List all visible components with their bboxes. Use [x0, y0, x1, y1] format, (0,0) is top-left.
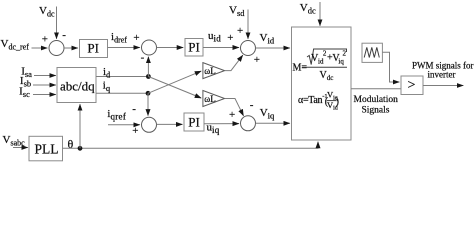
node junction on id wire — [146, 74, 151, 79]
summing junction S1 — [49, 41, 64, 56]
wire S2 to PI2 — [157, 47, 184, 49]
wire PI3 to S5, label uiq — [204, 109, 239, 135]
abc/dq transform block U1 — [57, 68, 96, 103]
node Isa label — [21, 65, 32, 79]
wire S4 to PI3 — [157, 123, 183, 125]
svg-text:+: + — [227, 32, 233, 44]
wire id feedback up into S2 — [147, 57, 149, 77]
PI controller box PI3 — [184, 113, 204, 131]
PI controller box PI2 — [185, 39, 203, 57]
PI controller box PI1 — [80, 40, 108, 58]
svg-text:+: + — [42, 33, 48, 45]
wire Vdc_ref into S1 — [32, 33, 48, 48]
wire Vdc down into M-block — [319, 2, 321, 26]
svg-text:+: + — [229, 109, 235, 121]
node Vdc_ref label — [1, 38, 30, 52]
wire id diagonal to gain wL2 — [148, 77, 201, 99]
svg-text:PI: PI — [188, 40, 200, 55]
wire Vsd down into S3 — [237, 10, 248, 39]
svg-text:+: + — [132, 125, 138, 137]
value label alpha equation — [298, 90, 339, 112]
svg-text:Modulation: Modulation — [354, 95, 399, 105]
node Isb label — [20, 75, 31, 89]
wire PI1 to S2, label idref — [108, 31, 140, 48]
wire Isc into abc/dq — [33, 94, 56, 96]
node Vdc label (top-right) — [300, 2, 316, 16]
wire iq feedback down into S4 — [147, 93, 149, 115]
svg-text:iqref: iqref — [107, 108, 126, 122]
svg-text:θ: θ — [68, 137, 74, 151]
svg-text:-: - — [141, 52, 145, 64]
node label Modulation Signals — [354, 95, 399, 115]
svg-text:α=Tan: α=Tan — [298, 95, 323, 106]
svg-text:Vid: Vid — [260, 32, 275, 46]
wire iq from abc/dq, label iq — [96, 80, 148, 94]
svg-text:id: id — [103, 66, 110, 80]
gain block wL2 — [203, 91, 225, 107]
comparator U5 — [401, 76, 423, 95]
modulation calculator block U2 — [292, 27, 352, 140]
wire modulation signals to comparator — [351, 88, 401, 90]
svg-text:idref: idref — [111, 31, 127, 45]
svg-text:id: id — [318, 58, 324, 66]
node Vsd label — [229, 5, 245, 19]
svg-text:-: - — [250, 99, 254, 111]
node Isc label — [19, 86, 30, 100]
wire S3 to M-block, label Vid — [256, 32, 290, 48]
gain block wL1 — [203, 63, 225, 79]
svg-text:Vdc: Vdc — [39, 5, 55, 19]
node iqref label — [107, 108, 126, 122]
svg-text:Vdc: Vdc — [300, 2, 316, 16]
wire theta up into abc/dq — [79, 104, 81, 148]
svg-text:+: + — [133, 32, 139, 44]
svg-text:PI: PI — [87, 40, 99, 55]
svg-text:ωL: ωL — [204, 66, 215, 76]
wire id from abc/dq, label id — [96, 66, 148, 80]
wire PWM output — [423, 85, 463, 87]
svg-text:M=: M= — [293, 62, 308, 73]
wire iqref into S4 — [108, 125, 140, 137]
svg-text:>: > — [408, 78, 416, 93]
node junction on theta wire — [78, 146, 83, 151]
svg-text:-: - — [62, 29, 66, 41]
value label M equation — [293, 49, 348, 82]
svg-text:): ) — [336, 96, 339, 107]
node label PWM signals for inverter — [412, 60, 474, 79]
svg-text:PLL: PLL — [34, 141, 58, 156]
wire Isb into abc/dq — [33, 84, 56, 86]
svg-text:iq: iq — [338, 58, 344, 66]
wire Isa into abc/dq — [34, 75, 56, 77]
summing junction S3 — [241, 41, 261, 66]
svg-text:inverter: inverter — [428, 69, 456, 79]
wire wL1 to S3 — [225, 55, 243, 70]
node Vdc label (top-left) — [39, 5, 55, 19]
svg-text:PI: PI — [188, 114, 200, 129]
node Vsabc label — [3, 134, 26, 148]
carrier wave generator box U4 — [362, 43, 382, 62]
node theta label — [68, 137, 74, 151]
wire Vsabc into PLL — [13, 147, 28, 149]
svg-text:+: + — [237, 25, 243, 37]
PLL block U3 — [29, 136, 63, 161]
wire iq diagonal to gain wL1 — [148, 71, 201, 93]
svg-text:+: + — [254, 54, 260, 66]
svg-text:Viq: Viq — [260, 107, 275, 121]
wire wL2 to S5 — [225, 99, 244, 116]
wire S1 to PI1 — [64, 47, 78, 49]
svg-text:Vsabc: Vsabc — [3, 134, 26, 148]
wire PI2 to S3, label uid — [203, 30, 239, 48]
wire theta from PLL to M-block bottom — [63, 142, 319, 149]
svg-text:Vdc_ref: Vdc_ref — [1, 38, 30, 52]
svg-text:Vsd: Vsd — [229, 5, 245, 19]
svg-text:2: 2 — [343, 50, 347, 58]
svg-text:abc/dq: abc/dq — [60, 78, 95, 93]
svg-text:uid: uid — [208, 30, 221, 44]
wire S5 to M-block, label Viq — [256, 107, 290, 123]
wire Vdc down into summing junction S1 — [57, 7, 67, 41]
svg-text:-: - — [132, 103, 136, 115]
svg-text:Signals: Signals — [362, 105, 390, 115]
node junction on iq wire — [146, 91, 151, 96]
summing junction S5 — [241, 99, 256, 131]
summing junction S4 — [132, 103, 156, 132]
summing junction S2 — [141, 40, 157, 64]
svg-text:ωL: ωL — [204, 94, 215, 104]
svg-text:iq: iq — [103, 80, 111, 94]
wire carrier to comparator — [382, 52, 399, 82]
